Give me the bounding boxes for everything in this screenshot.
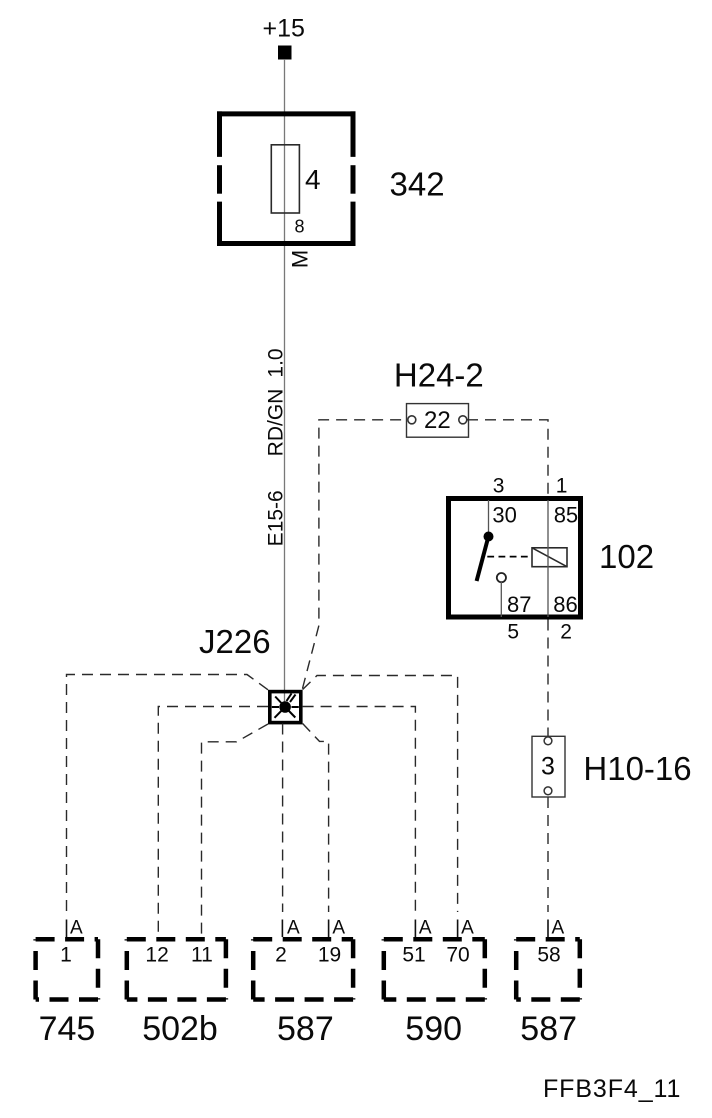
- svg-text:A: A: [552, 918, 565, 939]
- wire: dashed from H10-16 down to 587 pin 58: [547, 797, 549, 912]
- component 745 (dashed box): [36, 939, 98, 999]
- fuse symbol inside 342: [271, 145, 299, 213]
- svg-text:5: 5: [507, 621, 519, 644]
- svg-text:4: 4: [305, 164, 321, 195]
- wire: dashed junction to 587 pin 2: [282, 724, 284, 913]
- connector point A at 587 pin 19: [328, 920, 330, 938]
- connector point A at 590 pin 51: [414, 920, 416, 938]
- wire: dashed junction to 502b pin 12: [158, 707, 268, 938]
- svg-text:A: A: [70, 918, 83, 939]
- svg-text:22: 22: [424, 407, 451, 434]
- svg-text:590: 590: [405, 1010, 462, 1048]
- svg-text:2: 2: [275, 944, 287, 967]
- wire: dashed junction to 587 pin 19: [303, 724, 329, 913]
- +15 terminal square: [278, 46, 292, 60]
- connector point A at 745 pin 1: [66, 920, 68, 938]
- svg-text:19: 19: [318, 944, 341, 967]
- svg-text:A: A: [332, 918, 345, 939]
- svg-text:102: 102: [599, 538, 654, 575]
- svg-text:587: 587: [277, 1010, 334, 1048]
- svg-text:30: 30: [492, 503, 516, 528]
- wire: dashed from connector 22 right terminal to relay pin 1: [467, 420, 548, 496]
- wire: dashed from relay pin 2 down to connector H10-16: [547, 620, 549, 737]
- component 590 (dashed box): [384, 939, 485, 999]
- svg-text:70: 70: [446, 944, 469, 967]
- wire: dashed junction to 745 pin 1: [67, 675, 269, 913]
- relay fixed contact 87 (open circle): [497, 573, 506, 582]
- svg-text:86: 86: [553, 592, 577, 617]
- svg-text:58: 58: [537, 944, 560, 967]
- relay switch common contact (dot): [484, 532, 494, 542]
- svg-text:12: 12: [145, 944, 168, 967]
- svg-text:J226: J226: [199, 623, 271, 660]
- wire: main feed from +15 terminal through fuse 342 down to junction J226: [284, 59, 286, 706]
- connector point A at 587 pin 58: [547, 920, 549, 938]
- wire: dashed junction to 590 pin 70: [303, 676, 458, 913]
- svg-text:87: 87: [507, 592, 531, 617]
- svg-text:E15-6: E15-6: [265, 490, 288, 546]
- svg-text:745: 745: [39, 1010, 96, 1048]
- component 587 left (dashed box): [253, 939, 353, 999]
- wire: dashed junction to 590 pin 51: [303, 707, 416, 913]
- svg-text:1: 1: [556, 475, 568, 498]
- relay 102 outline box: [449, 499, 581, 618]
- svg-text:8: 8: [295, 217, 305, 237]
- connector H10-16 pin 3 (box with two terminals): [532, 736, 565, 797]
- svg-text:+15: +15: [263, 14, 305, 42]
- svg-text:H10-16: H10-16: [583, 750, 691, 787]
- svg-text:502b: 502b: [142, 1010, 218, 1048]
- svg-text:3: 3: [493, 475, 505, 498]
- svg-text:1: 1: [60, 944, 72, 967]
- component 502b (dashed box): [127, 939, 226, 999]
- svg-text:FFB3F4_11: FFB3F4_11: [543, 1075, 681, 1103]
- svg-text:M: M: [288, 250, 313, 268]
- svg-text:3: 3: [541, 753, 555, 781]
- svg-text:342: 342: [390, 166, 445, 203]
- relay coil (rectangle with diagonal): [532, 548, 567, 567]
- relay actuation dashed link from arm to coil: [487, 556, 532, 558]
- svg-text:587: 587: [520, 1010, 577, 1048]
- connector H24-2 pin 22 (box with two terminals): [407, 404, 469, 438]
- svg-text:1.0: 1.0: [265, 348, 288, 377]
- connector point A at 587 pin 2: [281, 920, 283, 938]
- wire: relay pin 87 lead to bottom edge: [500, 582, 502, 617]
- connector point A at 590 pin 70: [457, 920, 459, 938]
- component 342 (fuse holder box, dashed sides): [217, 111, 356, 246]
- svg-text:A: A: [461, 918, 474, 939]
- junction J226 star (dot with rays): [272, 694, 299, 718]
- svg-text:RD/GN: RD/GN: [265, 389, 288, 457]
- junction J226 box: [270, 692, 301, 723]
- relay switch arm: [477, 537, 489, 581]
- svg-text:H24-2: H24-2: [394, 357, 484, 394]
- component 587 right (dashed box): [516, 939, 580, 999]
- wire: relay pin 30 lead inside: [488, 500, 490, 534]
- svg-text:2: 2: [560, 621, 572, 644]
- wire: dashed from junction J226 up/right to connector 22 left terminal: [303, 420, 407, 689]
- svg-text:A: A: [419, 918, 432, 939]
- svg-text:85: 85: [554, 503, 578, 528]
- svg-text:11: 11: [191, 944, 213, 967]
- wire: relay coil lead pin 1/85 to pin 86/2: [547, 500, 549, 617]
- svg-text:A: A: [287, 918, 300, 939]
- wire: dashed junction to 502b pin 11: [202, 724, 269, 937]
- svg-text:51: 51: [402, 944, 425, 967]
